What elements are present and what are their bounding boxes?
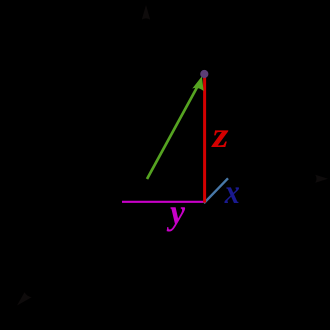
svg-text:x: x	[224, 174, 240, 211]
svg-text:y: y	[166, 192, 186, 232]
x segment (steel blue)	[204, 178, 228, 203]
x-axis	[17, 180, 148, 306]
z segment (red)	[203, 75, 206, 203]
z-axis	[142, 5, 150, 180]
point dot (purple)	[200, 70, 208, 78]
vector a (green)	[147, 76, 204, 179]
svg-text:z: z	[210, 115, 228, 155]
y-axis	[148, 175, 329, 183]
y segment (magenta)	[122, 201, 205, 203]
